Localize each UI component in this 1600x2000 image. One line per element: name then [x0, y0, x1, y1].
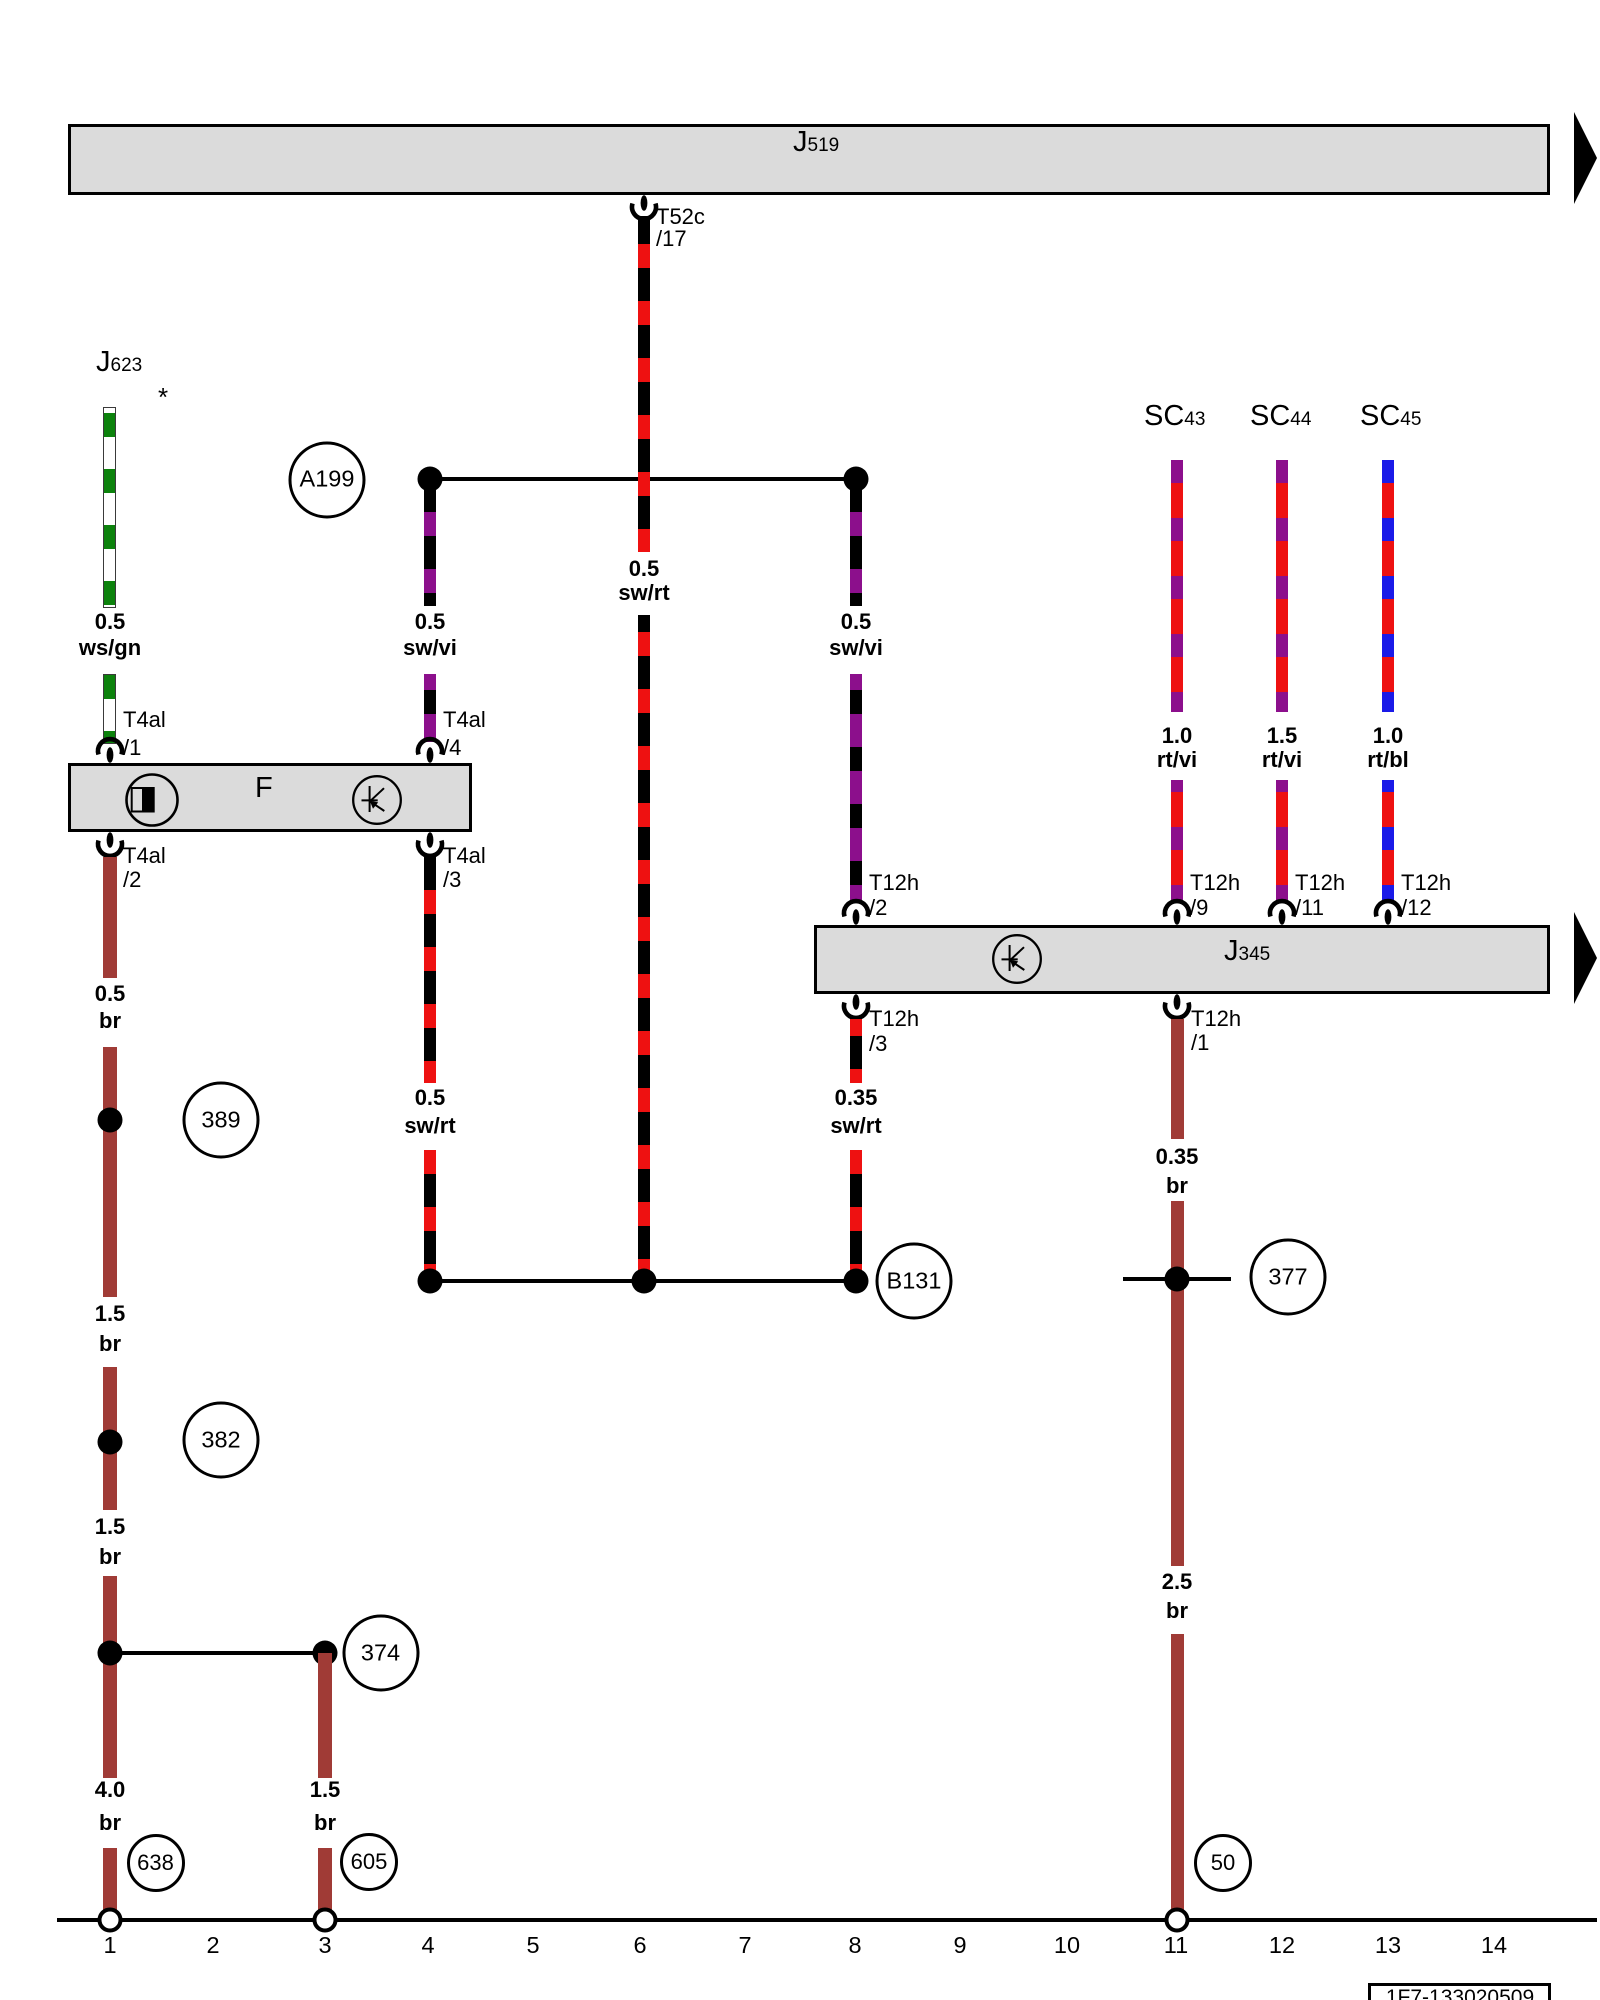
circle 50	[1194, 1834, 1252, 1892]
track numbers	[103, 1934, 116, 1958]
circle B131	[876, 1243, 953, 1320]
J345 label	[1224, 937, 1270, 969]
control unit J345 box	[814, 925, 1550, 994]
wire sw/rt col6 long	[638, 615, 650, 1281]
connector T4al/4	[412, 735, 448, 763]
F icon fuse symbol	[124, 772, 180, 828]
ground symbol track 11	[1165, 1908, 1190, 1933]
wire label 1.5 br	[95, 1512, 126, 1572]
circle 389	[183, 1082, 260, 1159]
wire label 0.5 sw/rt col4	[404, 1084, 455, 1140]
wire sw/vi col4 lower	[424, 674, 436, 742]
ground symbol track 1	[98, 1908, 123, 1933]
circle 638	[127, 1834, 185, 1892]
wire rt/bl SC45 lower	[1382, 780, 1394, 903]
wire label 1.0 rt/vi	[1157, 724, 1197, 772]
circle 374	[342, 1615, 419, 1692]
wire br segment to node 382	[103, 1047, 117, 1297]
wire sw/rt col8 below J345	[850, 1019, 862, 1083]
wire label 0.5 ws/gn	[79, 609, 141, 661]
wire br col11 to ground 11	[1171, 1634, 1184, 1910]
circle 382	[183, 1402, 260, 1479]
connector T4al/1	[92, 735, 128, 763]
node link wire A199 row	[430, 477, 856, 481]
wire br 0.5 segment	[103, 857, 117, 978]
wire br to ground 3	[318, 1848, 332, 1910]
wire label 1.5 br	[95, 1299, 126, 1359]
wire label 1.5 br column 3	[310, 1773, 341, 1839]
wire label 4.0 br	[95, 1773, 126, 1839]
circle 605	[340, 1833, 398, 1891]
wire sw/vi col8 lower	[850, 674, 862, 903]
connector T12h/12	[1370, 897, 1406, 925]
component label J623	[96, 348, 142, 380]
connector T12h/11	[1264, 897, 1300, 925]
junction node 382	[98, 1430, 123, 1455]
wire label 0.5 br	[95, 980, 126, 1034]
wire br col11 through node 377	[1171, 1201, 1184, 1566]
J519 label	[793, 128, 839, 160]
wire label 1.0 rt/bl	[1367, 724, 1409, 772]
node 374 link wire	[110, 1651, 325, 1655]
node 377 crossbar	[1123, 1277, 1231, 1281]
relay carrier F box	[68, 763, 472, 832]
wire br segment	[103, 1367, 117, 1510]
wire sw/vi col4 upper	[424, 479, 436, 606]
bottom current track line	[57, 1918, 1597, 1921]
wire ws/gn upper segment	[103, 407, 116, 608]
J345 icon sensor-arrow symbol	[991, 933, 1043, 985]
connector T12h/2	[838, 897, 874, 925]
wire label 0.5 sw/vi col4	[403, 609, 457, 661]
arrow out of J345	[1572, 912, 1600, 1004]
wire sw/rt col4 to node	[424, 1150, 436, 1281]
node B131 link wire	[430, 1279, 856, 1283]
wire br 1.5 segment column 3	[318, 1653, 332, 1778]
junction dot col6 bottom	[632, 1269, 657, 1294]
arrow out of J519	[1572, 112, 1600, 204]
wire label 0.5 sw/vi col8	[829, 609, 883, 661]
footnote asterisk	[158, 382, 168, 413]
connector T4al/2	[92, 832, 128, 860]
junction dot col4 top	[418, 467, 443, 492]
wire br to ground 1	[103, 1848, 117, 1910]
wire br 0.35 col11	[1171, 1019, 1184, 1139]
junction node 377	[1165, 1267, 1190, 1292]
wire sw/rt col6 upper	[638, 216, 650, 552]
connector T12h/1	[1159, 994, 1195, 1022]
wire rt/vi SC43 lower	[1171, 780, 1183, 903]
junction node 389	[98, 1108, 123, 1133]
junction dot col8 top	[844, 467, 869, 492]
control unit J519 box	[68, 124, 1550, 195]
junction dot col4 bottom	[418, 1269, 443, 1294]
splice label SC45	[1360, 402, 1421, 434]
wire label 2.5 br	[1162, 1567, 1193, 1625]
circle A199	[289, 441, 366, 518]
wire label 0.35 sw/rt col8	[830, 1084, 881, 1140]
wire rt/vi SC44 upper	[1276, 460, 1288, 712]
wire sw/rt col4 below F	[424, 857, 436, 1083]
wire sw/rt col8 to node	[850, 1150, 862, 1281]
splice label SC43	[1144, 402, 1205, 434]
junction node 374 left	[98, 1641, 123, 1666]
connector T52c/17	[626, 195, 662, 223]
wire label 0.35 br	[1156, 1142, 1199, 1200]
wire label 0.5 sw/rt col6	[618, 557, 669, 605]
wire sw/vi col8 upper	[850, 479, 862, 606]
F label	[255, 774, 273, 803]
connector T12h/9	[1159, 897, 1195, 925]
wire rt/vi SC44 lower	[1276, 780, 1288, 903]
junction node 374 right	[313, 1641, 338, 1666]
junction dot col8 bottom	[844, 1269, 869, 1294]
wire ws/gn lower segment	[103, 674, 116, 744]
wire rt/vi SC43 upper	[1171, 460, 1183, 712]
wire rt/bl SC45 upper	[1382, 460, 1394, 712]
F icon sensor-arrow symbol	[351, 774, 403, 826]
splice label SC44	[1250, 402, 1311, 434]
wire label 1.5 rt/vi	[1262, 724, 1302, 772]
wire br segment through node 374	[103, 1576, 117, 1778]
circle 377	[1250, 1239, 1327, 1316]
part number box	[1368, 1983, 1551, 2000]
ground symbol track 3	[313, 1908, 338, 1933]
connector T12h/3	[838, 994, 874, 1022]
connector T4al/3	[412, 832, 448, 860]
